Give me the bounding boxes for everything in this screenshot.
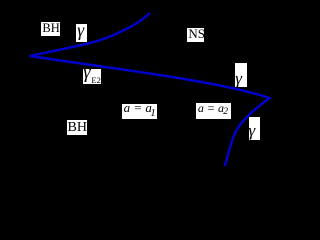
label BH (lower black hole) <box>67 120 87 136</box>
caustic curve (blue, two cusps) <box>30 13 270 166</box>
label gamma (bottom right photon) <box>249 117 260 140</box>
label gamma (right photon) <box>235 63 247 87</box>
label gamma (top photon) <box>76 24 87 42</box>
label BH (top left black hole) <box>41 22 60 36</box>
label gamma_E2 (photon E2) <box>83 69 102 85</box>
label a = a2 (separation 2) <box>196 103 231 119</box>
label NS (neutron star) <box>187 28 204 42</box>
label a = a1 (separation 1) <box>122 104 158 120</box>
